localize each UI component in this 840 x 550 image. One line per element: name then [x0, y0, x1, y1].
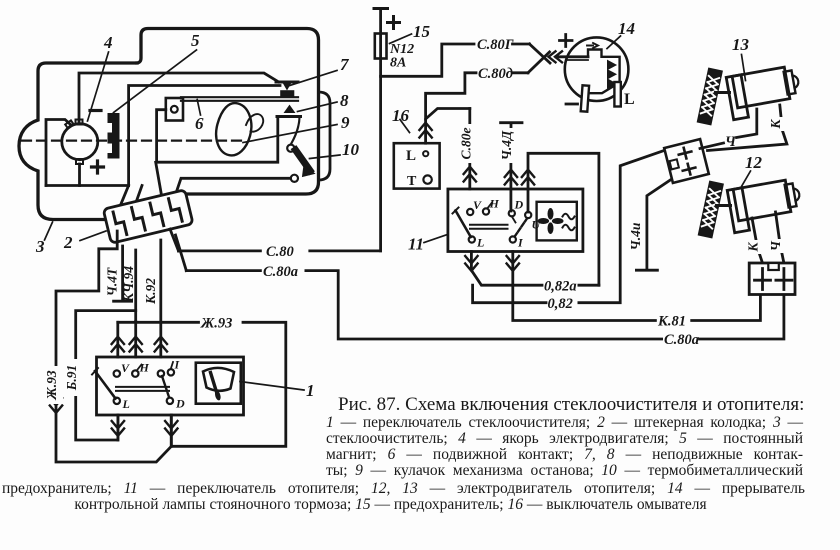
- svg-text:Ч.4Т: Ч.4Т: [105, 267, 120, 296]
- dashed motor axis: [22, 140, 247, 142]
- wire bus Ж.93: [118, 322, 286, 446]
- leader 9: [243, 125, 337, 143]
- wire Ч to motor 13: [700, 143, 724, 149]
- leader 13: [742, 55, 746, 81]
- svg-text:8: 8: [340, 91, 349, 110]
- wire Б.91 branch: [76, 311, 136, 440]
- wire switch 16 up: [426, 109, 470, 144]
- svg-text:6: 6: [195, 114, 204, 133]
- svg-text:16: 16: [392, 106, 410, 125]
- svg-text:10: 10: [342, 140, 360, 159]
- leader 2: [80, 231, 106, 241]
- label Ч.4Д (on-wire): [499, 128, 518, 163]
- caption title: [338, 394, 808, 416]
- ground wire 4.4и: [636, 179, 672, 271]
- leader 14: [607, 36, 621, 49]
- svg-text:11: 11: [408, 235, 424, 254]
- plug connector block (2): [103, 190, 193, 244]
- wire 0.82: [473, 150, 667, 303]
- crossing arrows: [549, 51, 563, 62]
- switch 1 link bar: [116, 387, 169, 391]
- svg-text:3: 3: [35, 237, 45, 256]
- label Б.91 (on-wire): [64, 359, 83, 396]
- caption legend full-width lines: [2, 481, 805, 497]
- leader 15: [390, 34, 412, 44]
- wire H into switch: [134, 322, 137, 358]
- svg-text:15: 15: [413, 22, 431, 41]
- chevrons up V/H/I wires: [112, 337, 167, 352]
- svg-text:9: 9: [341, 113, 350, 132]
- fuse 15: [375, 34, 387, 59]
- switch 11 contact D: [509, 210, 515, 216]
- wire С.80Д right segment: [513, 71, 528, 74]
- wire С.80Г right segment: [513, 43, 530, 46]
- housing right ear: [319, 92, 331, 180]
- wire bus С.80: [179, 249, 381, 252]
- leader 8: [298, 102, 338, 112]
- leader 16: [400, 120, 410, 133]
- switch 11 contact H: [483, 208, 489, 214]
- wire bus С.80а upper: [186, 271, 661, 339]
- svg-text:К: К: [745, 242, 760, 253]
- svg-text:L: L: [476, 236, 484, 250]
- svg-text:Ч.4и: Ч.4и: [628, 222, 643, 250]
- wire 0.82а right: [579, 284, 599, 287]
- resistor 12 stem: [717, 204, 731, 207]
- label К motor 13: [768, 117, 786, 131]
- contact I stub: [171, 362, 173, 369]
- svg-text:КЧ.94: КЧ.94: [121, 266, 136, 303]
- wiper indicator icon: [196, 363, 241, 404]
- svg-text:U: U: [532, 218, 542, 232]
- svg-text:0,82а: 0,82а: [544, 279, 577, 295]
- svg-text:Ч: Ч: [725, 134, 737, 150]
- switch 1 contact V: [114, 370, 120, 376]
- switch 1 contact H: [132, 370, 138, 376]
- washer switch (16): [394, 143, 440, 189]
- wire С.80а right segment: [700, 295, 784, 340]
- wire: motor top to contact 7: [79, 73, 279, 122]
- svg-text:L: L: [122, 397, 130, 411]
- cam of stop mechanism (9): [216, 103, 251, 155]
- cam hook curve: [246, 114, 263, 132]
- svg-text:С.80а: С.80а: [664, 332, 699, 348]
- switch 1 contact mid: [158, 370, 164, 376]
- chevrons Ч.4Д: [505, 170, 517, 185]
- leader 12: [742, 171, 751, 187]
- minus sign 14: [566, 103, 578, 106]
- svg-text:4: 4: [103, 33, 113, 52]
- wire: zigzag to Ж.93 branch: [56, 231, 171, 462]
- svg-text:Ж.93: Ж.93: [44, 370, 59, 401]
- fixed contact 8 bar: [277, 115, 301, 118]
- wire С.80Д left segment: [426, 73, 476, 119]
- pivot circle: [171, 106, 178, 113]
- schematic number labels: [35, 19, 763, 400]
- resistor of motor 12: [699, 182, 723, 238]
- chevrons U wire: [522, 170, 534, 185]
- heater switch (11) box: [448, 189, 583, 252]
- contact 8 tip: [285, 106, 295, 113]
- label Ж.93 left (on-wire): [44, 366, 63, 404]
- middle motor connector: [664, 139, 709, 183]
- wire D below switch: [170, 415, 173, 446]
- svg-text:Н: Н: [489, 197, 500, 211]
- wire: motor bottom terminal down: [78, 164, 81, 186]
- blade tick: [92, 368, 98, 375]
- svg-text:Ж.93: Ж.93: [200, 316, 232, 332]
- wire: inner loop left (x=128.6): [129, 86, 280, 186]
- switch 1 contact D: [167, 398, 173, 404]
- leader 1: [240, 382, 304, 391]
- svg-text:0,82: 0,82: [548, 296, 573, 312]
- svg-text:С.80а: С.80а: [263, 264, 298, 280]
- wire into 14: [556, 55, 588, 58]
- svg-text:Т: Т: [407, 174, 417, 189]
- wire pin stub 2: [135, 186, 143, 207]
- switch contact letters: [121, 197, 542, 412]
- svg-text:8А: 8А: [390, 56, 406, 71]
- resistor 13 stem: [716, 91, 730, 94]
- wire К motor 12 down: [752, 218, 763, 263]
- motor minus sign: [90, 109, 101, 112]
- wiper switch (1) box: [97, 357, 244, 415]
- heater motor 13: [726, 65, 803, 120]
- contact H tick sw11: [488, 203, 492, 208]
- battery plus: [388, 17, 400, 29]
- svg-text:Ч: Ч: [768, 240, 783, 251]
- switch 1 right blade dashed: [162, 376, 169, 398]
- svg-text:V: V: [121, 361, 130, 375]
- wire Ч.4Д down: [509, 150, 512, 211]
- moving arm end pad: [281, 91, 294, 97]
- svg-text:К.92: К.92: [143, 278, 158, 305]
- wire pin stub 3: [156, 162, 162, 198]
- wire L below switch 11: [471, 252, 542, 286]
- detachable crossing to 14: [528, 44, 550, 73]
- switch 11 blade tick: [453, 208, 459, 214]
- leader 4: [88, 52, 109, 121]
- chevrons down L/D wires: [50, 398, 178, 436]
- wire Ч right segment: [737, 109, 757, 138]
- wire КЧ.94: [134, 250, 137, 322]
- wire Ч.4Д top bar: [501, 123, 522, 131]
- svg-text:С.80е: С.80е: [458, 128, 473, 160]
- fixed contact 7 bar: [276, 81, 298, 84]
- chevrons L wire 11: [465, 256, 477, 271]
- leader 7: [288, 71, 337, 87]
- svg-text:L: L: [406, 148, 416, 164]
- leader 5: [114, 50, 197, 113]
- svg-text:1: 1: [306, 381, 315, 400]
- switch 11 link bar: [470, 225, 508, 229]
- leader lines: [45, 34, 751, 390]
- svg-text:К.81: К.81: [657, 314, 686, 330]
- switch 1 contact I: [168, 369, 174, 375]
- label К motor 12: [745, 240, 763, 254]
- wiper motor assembly housing (3): [19, 29, 319, 220]
- battery feed riser: [379, 9, 382, 251]
- wire branch to С.80Г: [381, 44, 474, 76]
- wire: motor bottom bus: [46, 184, 129, 187]
- switch 11 right blade dashed: [514, 219, 527, 238]
- wire I below switch 11 / К.81: [513, 252, 761, 321]
- leader 6: [197, 100, 200, 116]
- chevrons I wire 11: [507, 256, 519, 271]
- svg-text:С.80д: С.80д: [478, 66, 513, 82]
- svg-text:D: D: [514, 198, 524, 212]
- svg-text:V: V: [473, 198, 482, 212]
- wire К motor 13: [708, 105, 787, 151]
- leader 10: [310, 155, 341, 159]
- wire: motor left loop: [46, 120, 71, 186]
- moving contact pivot box (6): [166, 98, 183, 121]
- parking brake lamp interrupter (14): [565, 37, 629, 111]
- caption legend right column: [326, 415, 803, 479]
- resistor of motor 13: [698, 69, 722, 125]
- svg-text:Ч.4Д: Ч.4Д: [499, 130, 514, 160]
- svg-text:С.80Г: С.80Г: [477, 37, 514, 53]
- armature of electric motor (4): [62, 120, 98, 165]
- wire: connector to С.80а: [176, 235, 187, 271]
- svg-text:Н: Н: [139, 361, 150, 375]
- motor plus sign: [92, 161, 104, 173]
- heater motor 12: [727, 178, 804, 233]
- wire L below switch: [117, 415, 120, 440]
- plus sign 14: [560, 35, 573, 47]
- label С.80е (on-wire): [458, 124, 477, 163]
- svg-text:2: 2: [63, 233, 73, 252]
- svg-text:I: I: [174, 358, 181, 372]
- wire: contact 8 to thermal fuse: [291, 117, 299, 144]
- svg-text:I: I: [517, 236, 524, 250]
- wire U loop: [528, 153, 599, 285]
- leader 3: [45, 222, 53, 240]
- contact 7 tip: [283, 83, 291, 90]
- svg-text:12: 12: [745, 153, 763, 172]
- wire V into switch: [116, 322, 119, 357]
- wire: housing pin stubs: [120, 186, 129, 208]
- switch 11 contact L: [469, 236, 475, 242]
- switch 1 contact L: [114, 398, 120, 404]
- chevrons С.80е: [464, 167, 476, 182]
- fan-heat icon: [537, 202, 577, 241]
- switch 11 contact I: [510, 236, 516, 242]
- switch 11 D stub: [512, 216, 516, 222]
- switch 1 left blade: [95, 371, 116, 399]
- label Ч motor 12: [768, 239, 786, 253]
- svg-text:С.80: С.80: [266, 244, 294, 260]
- bottom motor connector: [749, 263, 795, 295]
- svg-text:7: 7: [340, 55, 350, 74]
- permanent magnet (5): [108, 113, 120, 159]
- wire: connector to С.80: [170, 229, 179, 251]
- thermobimetallic fuse (10): [287, 145, 314, 182]
- svg-text:Б.91: Б.91: [64, 365, 79, 391]
- rotated wire labels: [44, 117, 786, 404]
- wire С.80е down to heater switch: [468, 109, 471, 190]
- wire Ч.4Т with end bar: [114, 246, 132, 301]
- moving contact arm (6): [181, 97, 298, 101]
- svg-text:13: 13: [732, 35, 750, 54]
- svg-text:5: 5: [191, 31, 200, 50]
- svg-text:L: L: [624, 91, 635, 108]
- svg-text:К: К: [768, 119, 783, 130]
- switch 11 contact U: [525, 212, 531, 218]
- battery top bar: [374, 7, 388, 10]
- switch 11 left blade: [456, 211, 471, 238]
- wire: pivot loop to contact 8: [157, 110, 278, 163]
- leader 11: [424, 235, 448, 243]
- contact H tick sw1: [138, 365, 142, 370]
- wire Ч motor 12 down: [776, 212, 784, 263]
- wire К.92: [159, 240, 162, 357]
- chevrons switch 16 wire: [419, 123, 431, 138]
- wire: fuse 10 to connector pin: [174, 178, 291, 199]
- switch 11 contact V: [467, 209, 473, 215]
- svg-text:D: D: [175, 397, 185, 411]
